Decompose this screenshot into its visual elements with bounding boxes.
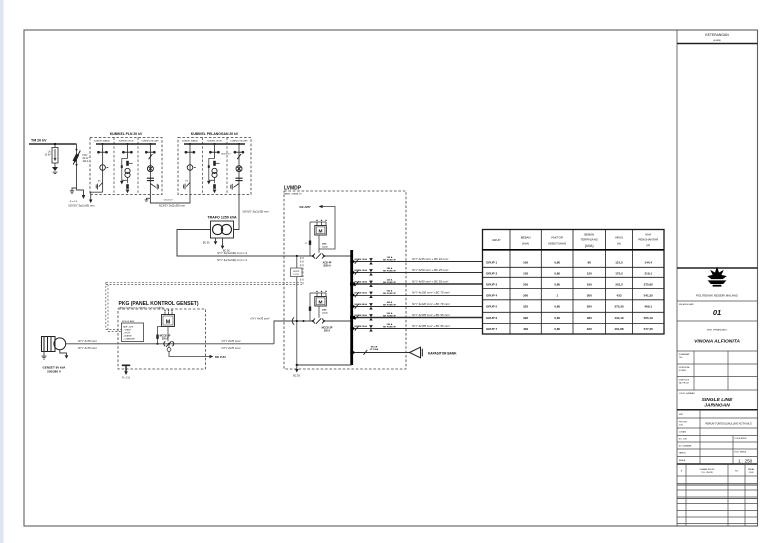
table row GRUP 4 (486, 293, 653, 297)
svg-text:AMF - ATS: AMF - ATS (123, 325, 134, 328)
wire interlock vertical (296, 256, 298, 365)
ground trafo neutral (221, 238, 225, 249)
svg-text:NH FUSE 3P: NH FUSE 3P (383, 260, 396, 262)
svg-text:TAHUN: TAHUN (679, 451, 686, 454)
wire feeder GRUP 7 (353, 328, 483, 330)
svg-text:LOKASI: LOKASI (679, 431, 687, 434)
svg-text:250 A: 250 A (324, 330, 331, 333)
ground genset neutral (60, 350, 69, 359)
svg-text:KUBIKEL MASUK: KUBIKEL MASUK (182, 140, 199, 143)
svg-text:PROYEK: PROYEK (679, 421, 688, 423)
svg-text:NYY 4x70 mm²: NYY 4x70 mm² (222, 346, 242, 350)
fuse lower pelanggan cell2 (213, 184, 216, 189)
svg-text:301,5: 301,5 (615, 282, 623, 286)
svg-text:NYY 4x70 mm²: NYY 4x70 mm² (251, 316, 271, 320)
switch blade pelanggan cell3 (237, 154, 241, 159)
svg-text:320 A: 320 A (387, 278, 393, 281)
svg-text:GRUP 5: GRUP 5 (486, 305, 497, 309)
svg-text:KUBIKEL KELUAR: KUBIKEL KELUAR (142, 140, 159, 143)
node incoming junction (296, 255, 298, 257)
wire breaker to busbar (324, 255, 351, 257)
circuit breaker circle PLN cell3 (147, 166, 153, 172)
wire pelanggan cell2 feeder (214, 144, 216, 159)
svg-text:N2XSY 3x(1x35) mm: N2XSY 3x(1x35) mm (159, 204, 186, 208)
arrow pelanggan cell2 bottom (213, 190, 217, 194)
svg-text:KODE ARSIP: KODE ARSIP (735, 437, 748, 440)
svg-text:NO. JOB: NO. JOB (679, 439, 688, 441)
table row GRUP 7 (486, 327, 653, 331)
svg-text:GRUP 4: GRUP 4 (486, 293, 497, 297)
svg-text:434,19: 434,19 (614, 316, 624, 320)
wire drop to lightning arrester LA1 (54, 144, 56, 148)
flexible link genset incoming (292, 317, 294, 324)
CT branch genset incoming (309, 293, 311, 321)
wire KE APP loop (319, 207, 335, 250)
meter box M PKG (162, 310, 175, 342)
svg-text:TM 20 kV: TM 20 kV (31, 138, 47, 142)
svg-text:JARINGAN: JARINGAN (704, 402, 730, 408)
fuse lower PLN cell2 (126, 184, 129, 189)
svg-text:NH FUSE 3P: NH FUSE 3P (383, 271, 396, 273)
svg-text:LEGEND: LEGEND (713, 40, 722, 42)
svg-text:NYY 4x(1x240) mm² x 4: NYY 4x(1x240) mm² x 4 (217, 258, 247, 262)
transformer T1 (211, 221, 234, 238)
ground LVMDP (295, 365, 299, 373)
svg-text:500 A: 500 A (387, 289, 393, 292)
svg-text:400 A: 400 A (387, 301, 393, 304)
kubikel pelanggan 20 kV enclosure (178, 137, 251, 194)
svg-text:KE PJU: KE PJU (215, 355, 226, 359)
disconnect switch pelanggan cell2 (210, 151, 220, 153)
wire genset output (66, 343, 274, 345)
svg-text:121,5: 121,5 (615, 261, 623, 265)
svg-text:MHS. PERANCANG: MHS. PERANCANG (707, 329, 727, 332)
wire trafo secondary to LVMDP (177, 230, 313, 257)
svg-text:MCCB 160A: MCCB 160A (355, 258, 368, 261)
svg-text:TERPASANG: TERPASANG (580, 237, 598, 241)
svg-text:400: 400 (523, 327, 528, 331)
generator set G1 (42, 337, 66, 352)
potential transformer pelanggan cell2 (212, 168, 217, 177)
svg-text:433: 433 (616, 293, 621, 297)
wire kWh meter link (318, 235, 320, 253)
svg-text:MCCB 400A: MCCB 400A (355, 303, 368, 306)
svg-text:- STOP: - STOP (123, 332, 131, 334)
svg-text:NH FUSE 3P: NH FUSE 3P (383, 305, 396, 307)
svg-text:2000 A: 2000 A (323, 265, 331, 268)
svg-text:260: 260 (587, 305, 592, 309)
wire PLN cell1 feeder (102, 144, 104, 192)
svg-text:FAKTOR: FAKTOR (551, 236, 563, 240)
earthing switch PLN cell3 (150, 184, 158, 190)
disconnect switch pelanggan cell3 (234, 151, 244, 153)
wire capacitor bank feeder (353, 352, 410, 354)
svg-text:20000/√3 V: 20000/√3 V (221, 153, 231, 156)
wire TM pole riser (76, 144, 78, 188)
ground below arrester LA1 (52, 163, 58, 174)
svg-text:500 A: 500 A (387, 312, 393, 315)
wire genset breaker to busbar (324, 320, 351, 322)
svg-text:DIGAMBAR: DIGAMBAR (679, 353, 690, 356)
circuit breaker ACB incoming Q1 (314, 253, 324, 259)
fuse switch symbol feeder 2 (369, 269, 373, 275)
svg-text:KEBUTUHAN: KEBUTUHAN (548, 242, 566, 246)
svg-text:PENGHANTAR: PENGHANTAR (638, 237, 658, 241)
wire feeder GRUP 2 (353, 272, 483, 274)
wire feeder GRUP 4 (353, 294, 483, 296)
svg-text:BEBAN: BEBAN (521, 236, 531, 240)
svg-text:CB 20 kV: CB 20 kV (164, 200, 174, 202)
breaker slash capacitor feeder (364, 350, 368, 355)
earthing switch pelanggan cell3 (231, 184, 239, 190)
svg-text:SKALA: SKALA (679, 459, 686, 462)
svg-text:LOCK: LOCK (293, 274, 299, 276)
compartment divider (137, 137, 139, 194)
svg-text:461,88: 461,88 (614, 327, 624, 331)
svg-text:M: M (319, 300, 323, 306)
breaker slash feeder 3 (355, 281, 359, 286)
svg-text:MCCB: MCCB (371, 346, 378, 348)
wire trafo primary riser (234, 195, 240, 230)
fuse switch symbol feeder 1 (369, 258, 373, 264)
node TM 20 kV incoming medium-voltage line (29, 143, 77, 145)
wire PLN cell2 feeder (127, 144, 129, 159)
wire PT secondary branch (122, 159, 128, 184)
svg-text:0,80: 0,80 (554, 272, 560, 276)
svg-text:325: 325 (523, 305, 528, 309)
svg-text:0,80: 0,80 (554, 282, 560, 286)
svg-text:NYY 4x95 mm² + BC 50 mm²: NYY 4x95 mm² + BC 50 mm² (412, 279, 449, 283)
svg-text:GRUP 6: GRUP 6 (486, 316, 497, 320)
title block (676, 30, 678, 526)
fused cutout FCO1 (73, 149, 81, 166)
svg-text:kWh: kWh (322, 244, 327, 246)
interlock box (291, 268, 303, 277)
wire pelanggan cell1 feeder (189, 144, 191, 195)
svg-text:NYY 4x(1x240) mm² x 4: NYY 4x(1x240) mm² x 4 (217, 251, 247, 255)
svg-text:1 : 250: 1 : 250 (738, 459, 752, 464)
svg-text:(A): (A) (646, 243, 650, 247)
svg-text:GRUP: GRUP (492, 238, 500, 242)
keterangan header box (677, 43, 758, 45)
current transformer pelanggan cell3 (235, 178, 242, 180)
svg-text:BC 50: BC 50 (293, 375, 300, 378)
fuse switch symbol feeder 4 (369, 292, 373, 298)
disconnect switch PLN cell1 (98, 151, 108, 153)
contactor tap to PJU (167, 344, 213, 359)
svg-text:NH FUSE 3P: NH FUSE 3P (383, 282, 396, 284)
wire kubikel PLN incoming riser (89, 192, 103, 203)
svg-text:N2XSY 3x(1x35) mm: N2XSY 3x(1x35) mm (68, 203, 95, 207)
svg-text:N2XSY 3x(1x35) mm: N2XSY 3x(1x35) mm (243, 210, 270, 214)
svg-text:250: 250 (523, 282, 528, 286)
node PKG line taps (157, 343, 159, 345)
fuse switch symbol feeder 7 (369, 325, 373, 331)
svg-text:144,4: 144,4 (644, 261, 652, 265)
current transformer PLN cell3 (147, 178, 154, 180)
module AMF box (122, 320, 144, 341)
svg-text:120: 120 (587, 272, 592, 276)
svg-text:BLN. TAHUN: BLN. TAHUN (735, 450, 747, 453)
svg-text:MCCB 500A: MCCB 500A (355, 314, 368, 317)
ground trafo body (214, 238, 218, 245)
svg-text:UNIT: UNIT (679, 414, 684, 416)
table row GRUP 3 (486, 282, 653, 286)
svg-text:NH FUSE 3P: NH FUSE 3P (383, 316, 396, 318)
logo section divider (677, 267, 758, 269)
svg-text:390: 390 (523, 316, 528, 320)
meter box M genset (310, 291, 327, 306)
svg-text:0,80: 0,80 (554, 261, 560, 265)
svg-text:MCCB 320A: MCCB 320A (355, 280, 368, 283)
lower info rows (677, 410, 758, 464)
svg-text:0,80: 0,80 (554, 305, 560, 309)
svg-text:NH FUSE 3P: NH FUSE 3P (383, 293, 396, 295)
ground genset frame (42, 352, 47, 360)
svg-text:(A): (A) (617, 242, 621, 246)
svg-text:GRUP 7: GRUP 7 (486, 327, 497, 331)
svg-text:TRAFO 1250 kVA: TRAFO 1250 kVA (207, 215, 236, 219)
svg-text:200 A: 200 A (387, 267, 393, 270)
svg-text:KUBIKEL PELANGGAN 20 kV: KUBIKEL PELANGGAN 20 kV (191, 132, 239, 136)
svg-text:220/380 V: 220/380 V (47, 369, 61, 373)
potential transformer PLN cell2 (125, 168, 130, 177)
svg-text:MCCB 500A: MCCB 500A (355, 291, 368, 294)
compartment divider (226, 137, 228, 194)
control cable tray double dashed right drop (301, 257, 303, 285)
svg-text:BC 50: BC 50 (203, 242, 210, 245)
arrow PT secondary (207, 181, 211, 185)
svg-text:KUBIKEL UKUR: KUBIKEL UKUR (119, 141, 134, 143)
svg-text:R ≤ 5 Ω: R ≤ 5 Ω (122, 377, 130, 380)
svg-text:375,30: 375,30 (614, 305, 624, 309)
disconnect switch PLN cell3 (145, 151, 155, 153)
svg-text:160 A: 160 A (387, 256, 393, 259)
table row GRUP 1 (486, 261, 652, 265)
wire kWh meter link genset (318, 306, 320, 318)
CT branch incoming (309, 222, 311, 256)
svg-text:LVMDP: LVMDP (284, 186, 302, 192)
svg-text:PARAF: PARAF (748, 468, 755, 471)
svg-text:80: 80 (588, 261, 592, 265)
svg-text:meter: meter (322, 312, 328, 315)
busbar kubikel PLN (96, 143, 156, 145)
svg-text:0,80: 0,80 (554, 316, 560, 320)
circuit breaker PKG MCCB (164, 341, 174, 347)
svg-text:300: 300 (523, 293, 528, 297)
node bus taps pelanggan (189, 143, 191, 145)
control cable tray double dashed horizontal (106, 282, 302, 284)
svg-text:NYY 4x35 mm² + BC 16 mm²: NYY 4x35 mm² + BC 16 mm² (412, 257, 449, 261)
wire pelanggan cell3 feeder (238, 144, 240, 195)
svg-text:KE APP: KE APP (299, 205, 310, 209)
wire feeder GRUP 6 (353, 317, 483, 319)
node bus taps PLN (102, 143, 104, 145)
svg-text:PKG (PANEL KONTROL GENSET): PKG (PANEL KONTROL GENSET) (119, 301, 199, 307)
svg-text:- START: - START (123, 328, 132, 331)
svg-text:URAIAN REVISI: URAIAN REVISI (700, 468, 715, 471)
svg-text:3P 100A: 3P 100A (370, 348, 379, 351)
fuse PT pelanggan cell2 (213, 161, 216, 166)
arrow PLN cell2 bottom (126, 190, 130, 194)
svg-text:250 A: 250 A (162, 338, 169, 341)
fuse switch symbol feeder 6 (369, 314, 373, 320)
breaker slash feeder 2 (355, 270, 359, 275)
table row GRUP 5 (486, 305, 652, 309)
svg-text:NYY 4x120 mm² + BC 70 mm²: NYY 4x120 mm² + BC 70 mm² (412, 302, 451, 306)
svg-text:469,1: 469,1 (644, 305, 652, 309)
breaker slash feeder 5 (355, 304, 359, 309)
table header labels (492, 232, 658, 246)
arrow KE APP (319, 205, 323, 208)
svg-text:KUBIKEL MASUK: KUBIKEL MASUK (94, 140, 111, 143)
fuse switch symbol feeder 3 (369, 281, 373, 287)
control cable tray double dashed left drop (106, 282, 122, 331)
svg-text:20 kV: 20 kV (45, 154, 51, 156)
meter circle pelanggan cell1 (187, 165, 193, 171)
PKG enclosure (118, 309, 206, 369)
svg-text:219,1: 219,1 (644, 272, 652, 276)
svg-text:505,19: 505,19 (644, 316, 654, 320)
svg-text:JOB: JOB (679, 424, 684, 426)
logo politeknik (707, 267, 727, 287)
compartment divider (202, 137, 204, 194)
svg-text:20 kV: 20 kV (83, 158, 89, 160)
svg-text:190: 190 (587, 282, 592, 286)
arrow PT secondary (120, 181, 124, 185)
svg-text:DOSEN: DOSEN (679, 370, 687, 372)
svg-text:BEBAN: BEBAN (584, 232, 594, 236)
svg-text:175,2: 175,2 (615, 272, 623, 276)
table row GRUP 2 (486, 272, 652, 276)
breaker slash feeder 6 (355, 315, 359, 320)
svg-text:- ALARM: - ALARM (123, 334, 132, 337)
circuit breaker circle pelanggan cell3 (236, 166, 242, 172)
svg-text:VINONA ALFIONITA: VINONA ALFIONITA (694, 339, 740, 345)
ground at pole base (70, 188, 77, 194)
wire cable down arrow to underground (77, 188, 86, 199)
fuse switch symbol feeder 5 (369, 303, 373, 309)
earthing switch pelanggan cell1 (184, 183, 190, 190)
svg-text:300: 300 (587, 293, 592, 297)
wire PT secondary branch (209, 159, 215, 184)
svg-text:NO. GAMBAR: NO. GAMBAR (679, 444, 692, 447)
svg-text:meter: meter (322, 246, 328, 249)
svg-text:DIPERIKSA: DIPERIKSA (679, 366, 690, 369)
earthing switch PLN cell1 (96, 183, 102, 190)
svg-text:320: 320 (587, 327, 592, 331)
svg-text:NYY 4x185 mm² + BC 95 mm²: NYY 4x185 mm² + BC 95 mm² (412, 313, 451, 317)
wire link PLN outgoing to pelanggan (150, 195, 190, 204)
compartment divider (113, 137, 115, 194)
lightning arrester LA1 (52, 148, 58, 164)
meter circle PLN cell1 (100, 165, 106, 171)
wire PLN cell3 feeder (149, 144, 151, 195)
breaker slash feeder 7 (355, 326, 359, 331)
ground PKG panel (122, 365, 130, 375)
svg-text:NH FUSE 3P: NH FUSE 3P (383, 327, 396, 329)
svg-text:SINGLE LINE: SINGLE LINE (702, 397, 733, 403)
svg-text:kWh: kWh (322, 310, 327, 312)
svg-text:150: 150 (523, 272, 528, 276)
svg-text:541,25: 541,25 (644, 293, 654, 297)
svg-text:MCCB 200A: MCCB 200A (355, 269, 368, 272)
busbar LVMDP main (350, 250, 353, 365)
svg-text:FCO: FCO (83, 155, 88, 157)
wire busbar bottom to ground (297, 364, 352, 366)
LVMDP enclosure (284, 191, 406, 369)
svg-text:M: M (319, 229, 323, 235)
svg-text:0,80: 0,80 (554, 327, 560, 331)
wire feeder GRUP 5 (353, 306, 483, 308)
svg-text:KUBIKEL UKUR: KUBIKEL UKUR (207, 141, 222, 143)
svg-text:POLITEKNIK NEGERI MALANG: POLITEKNIK NEGERI MALANG (696, 294, 739, 298)
svg-text:KUBIKEL KELUAR: KUBIKEL KELUAR (231, 140, 248, 143)
svg-text:NYY 4x185 mm² + BC 95 mm²: NYY 4x185 mm² + BC 95 mm² (412, 324, 451, 328)
svg-text:577,35: 577,35 (644, 327, 654, 331)
svg-text:NYY 4x70 mm²: NYY 4x70 mm² (78, 339, 98, 343)
load table GRUP 1-7 (483, 230, 665, 335)
svg-text:01: 01 (713, 308, 721, 317)
wire feeder GRUP 1 (353, 261, 483, 263)
svg-text:ARUS: ARUS (615, 236, 623, 240)
svg-text:LA: LA (48, 150, 51, 153)
svg-text:NYY 4x70 mm²: NYY 4x70 mm² (78, 346, 98, 350)
svg-text:KHA: KHA (645, 232, 651, 236)
svg-text:PANEL UTAMA TR: PANEL UTAMA TR (284, 193, 302, 196)
svg-text:(kVA): (kVA) (585, 244, 594, 248)
svg-text:380: 380 (587, 316, 592, 320)
svg-text:100: 100 (523, 261, 528, 265)
switch blade PLN cell3 (149, 154, 153, 159)
svg-text:KELAS/NO.ABS: KELAS/NO.ABS (679, 303, 694, 306)
fuse PT PLN cell2 (126, 161, 129, 166)
kubikel PLN 20 kV enclosure (90, 137, 162, 194)
svg-text:DSN: DSN (749, 472, 754, 474)
svg-text:TGL. REVISI: TGL. REVISI (701, 472, 713, 474)
CT branch PKG (158, 327, 162, 344)
busbar kubikel pelanggan (184, 143, 245, 145)
table row GRUP 6 (486, 316, 653, 320)
wire feeder GRUP 3 (353, 283, 483, 285)
svg-text:TGL.: TGL. (679, 357, 684, 359)
svg-text:KA. PRODI: KA. PRODI (679, 382, 690, 385)
disconnect switch pelanggan cell1 (185, 151, 195, 153)
ground at link (145, 198, 151, 201)
svg-text:INTER: INTER (293, 271, 300, 273)
svg-text:(kVA): (kVA) (522, 242, 529, 246)
svg-text:375,65: 375,65 (644, 282, 654, 286)
circuit breaker genset incoming Q2 (314, 318, 324, 324)
wire PKG to LVMDP riser (274, 321, 313, 344)
svg-text:100 A: 100 A (83, 160, 89, 163)
svg-text:- CHARGER: - CHARGER (123, 337, 135, 340)
breaker slash feeder 4 (355, 292, 359, 297)
svg-text:GRUP 3: GRUP 3 (486, 282, 497, 286)
svg-text:GRUP 1: GRUP 1 (486, 261, 497, 265)
svg-text:M: M (166, 320, 171, 326)
svg-text:PERUM TUNGGULWULUNG KOTA MLG: PERUM TUNGGULWULUNG KOTA MLG (705, 423, 751, 426)
svg-text:KAPASITOR BANK: KAPASITOR BANK (428, 351, 457, 355)
revision table (677, 463, 758, 465)
svg-text:GRUP 2: GRUP 2 (486, 272, 497, 276)
svg-text:KETERANGAN: KETERANGAN (705, 33, 729, 37)
node genset incoming junctions (296, 320, 298, 322)
breaker slash feeder 1 (355, 259, 359, 264)
svg-text:KUBIKEL PLN 20 kV: KUBIKEL PLN 20 kV (110, 132, 143, 136)
svg-text:NYY 4x70 mm²: NYY 4x70 mm² (222, 339, 242, 343)
svg-text:MCCB 500A: MCCB 500A (355, 325, 368, 328)
